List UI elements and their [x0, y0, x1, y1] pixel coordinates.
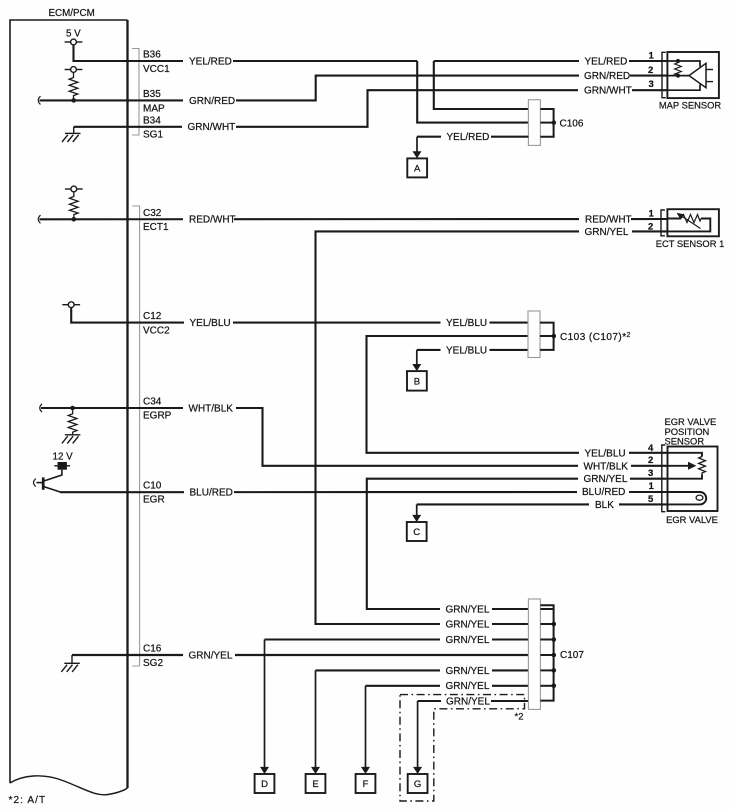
EGR pot wire pin3 — [668, 475, 703, 479]
MAP internal resistor — [675, 61, 682, 76]
svg-text:1: 1 — [649, 208, 655, 219]
svg-text:VCC1: VCC1 — [143, 64, 170, 75]
resistor (C32 pull-up) — [70, 192, 79, 219]
wire GRN/YEL (EGR pin3 down to C107 row A) — [367, 479, 668, 609]
wire GRN/YEL row G to arrow G — [418, 700, 529, 702]
svg-text:GRN/YEL: GRN/YEL — [446, 697, 490, 708]
label GRN/WHT near ECM — [182, 120, 236, 133]
svg-text:GRN/WHT: GRN/WHT — [584, 86, 632, 97]
svg-text:EGR VALVE: EGR VALVE — [666, 514, 718, 525]
svg-text:GRN/YEL: GRN/YEL — [446, 635, 490, 646]
pull-up supply circle (B35) — [65, 67, 83, 73]
ECT sensor box — [667, 209, 719, 236]
label BLK — [589, 498, 619, 511]
arrow to G — [417, 701, 419, 767]
label GRN/YEL row F — [440, 679, 492, 692]
svg-text:WHT/BLK: WHT/BLK — [189, 404, 234, 415]
arrow to E — [315, 670, 317, 767]
svg-text:ECM/PCM: ECM/PCM — [49, 8, 95, 19]
label GRN/YEL near ECM — [183, 649, 235, 662]
resistor (B35 pull-up) — [69, 72, 78, 100]
ECM/PCM box — [10, 20, 128, 795]
wire GRN/RED (B35 to MAP pin2) — [128, 76, 668, 101]
ECT internal loop — [667, 219, 710, 232]
label YEL/BLU near C103 — [441, 316, 490, 329]
svg-text:ECT1: ECT1 — [143, 222, 169, 233]
svg-text:C32: C32 — [143, 208, 162, 219]
EGR pot wiper arrow pin2 — [668, 465, 690, 467]
svg-text:1: 1 — [649, 50, 655, 61]
svg-text:1: 1 — [649, 481, 655, 492]
box B — [407, 371, 427, 391]
dash-dot A/T variant outline — [400, 695, 525, 801]
svg-text:SG2: SG2 — [143, 658, 163, 669]
svg-text:BLU/RED: BLU/RED — [190, 488, 233, 499]
svg-text:GRN/WHT: GRN/WHT — [188, 122, 236, 133]
label YEL/RED branch — [441, 130, 491, 143]
svg-text:GRN/YEL: GRN/YEL — [446, 666, 490, 677]
C107 junction dots — [552, 622, 557, 627]
label RED/WHT near ECM — [183, 213, 234, 226]
label GRN/YEL row E — [440, 664, 492, 677]
svg-text:2: 2 — [648, 222, 653, 233]
box C — [407, 522, 427, 541]
svg-text:VCC2: VCC2 — [143, 325, 170, 336]
svg-text:WHT/BLK: WHT/BLK — [584, 461, 629, 472]
svg-text:YEL/RED: YEL/RED — [447, 132, 490, 143]
arrow to C — [416, 504, 418, 515]
junction dot C34 — [70, 406, 75, 411]
pull-up supply circle (C32) — [65, 186, 83, 192]
svg-text:BLK: BLK — [595, 500, 614, 511]
svg-text:5: 5 — [648, 494, 654, 505]
arrow to F — [365, 686, 367, 768]
label GRN/YEL near EGR — [578, 472, 630, 485]
ground SG1 — [62, 127, 81, 142]
wire YEL/RED row1 sensor side — [434, 60, 668, 62]
label BLU/RED near ECM — [184, 486, 234, 499]
wire B36 (YEL/RED) from 5V to pin — [74, 45, 128, 61]
svg-text:GRN/RED: GRN/RED — [189, 96, 235, 107]
connector C103 terminal bracket — [540, 323, 554, 350]
connector C107 terminal bracket — [540, 605, 553, 700]
transistor Q (EGR driver) — [37, 470, 62, 493]
svg-text:YEL/BLU: YEL/BLU — [190, 318, 231, 329]
svg-text:C103 (C107)*2: C103 (C107)*2 — [560, 332, 631, 343]
label BLU/RED near EGR — [577, 485, 629, 498]
svg-text:5 V: 5 V — [66, 29, 81, 40]
svg-text:GRN/YEL: GRN/YEL — [189, 650, 233, 661]
svg-text:GRN/YEL: GRN/YEL — [585, 227, 629, 238]
arrow to B — [416, 350, 418, 365]
ECT connector bracket — [661, 210, 665, 236]
svg-text:YEL/BLU: YEL/BLU — [446, 318, 487, 329]
wire GRN/YEL row C to arrow D — [265, 638, 529, 640]
box A — [407, 158, 427, 177]
label GRN/YEL near ECT — [579, 225, 632, 238]
wire GRN/WHT (B34 to MAP pin3) — [128, 90, 668, 127]
svg-text:C12: C12 — [143, 311, 162, 322]
label GRN/YEL row G — [441, 696, 491, 707]
connector C107 housing — [528, 599, 540, 709]
wire continuation squiggle C32 — [38, 215, 40, 223]
wire vertical to C106 middle — [417, 61, 528, 123]
svg-text:MAP: MAP — [143, 103, 165, 114]
MAP junction dots — [676, 59, 680, 63]
svg-text:ECT SENSOR 1: ECT SENSOR 1 — [656, 238, 725, 249]
svg-text:SG1: SG1 — [143, 130, 163, 141]
svg-text:B36: B36 — [143, 50, 161, 61]
wire C34 (WHT/BLK) to EGR pin2 — [41, 408, 668, 466]
label GRN/RED near MAP — [579, 69, 630, 82]
svg-text:*2: A/T: *2: A/T — [9, 795, 47, 806]
box F — [356, 774, 376, 793]
12V supply square — [58, 462, 67, 470]
MAP buffer amp triangle — [689, 63, 706, 87]
label GRN/YEL row C — [440, 633, 492, 646]
resistor (C34 pull-down) — [68, 410, 77, 435]
svg-text:C106: C106 — [560, 118, 584, 129]
pin bracket group B36/B35/B34 — [132, 49, 139, 136]
MAP internal wire pin3 — [667, 84, 700, 90]
svg-text:A: A — [414, 164, 421, 175]
svg-text:C10: C10 — [143, 480, 162, 491]
svg-text:G: G — [414, 779, 421, 790]
svg-text:MAP SENSOR: MAP SENSOR — [659, 100, 722, 111]
junction dot C32 — [72, 217, 77, 222]
svg-text:RED/WHT: RED/WHT — [585, 214, 632, 225]
svg-text:SENSOR: SENSOR — [665, 435, 705, 446]
svg-text:2: 2 — [648, 65, 653, 76]
connector C106 housing — [528, 100, 540, 146]
wire C103 middle (to EGR pin4 via vertical) — [367, 336, 668, 453]
svg-text:C16: C16 — [143, 644, 162, 655]
wire YEL/RED row1 ECM side — [128, 60, 418, 62]
svg-text:RED/WHT: RED/WHT — [189, 215, 236, 226]
svg-text:GRN/YEL: GRN/YEL — [584, 474, 628, 485]
svg-text:B35: B35 — [143, 89, 161, 100]
wire continuation squiggle B35 — [38, 96, 40, 104]
C103 junction dot — [552, 334, 557, 339]
arrow to D — [264, 640, 266, 768]
svg-text:C34: C34 — [143, 396, 162, 407]
svg-text:EGRP: EGRP — [143, 411, 172, 422]
label WHT/BLK near EGR — [578, 460, 631, 473]
MAP internal wire pin2 — [667, 75, 689, 77]
MAP connector bracket — [662, 52, 666, 97]
EGR valve box — [668, 447, 718, 512]
svg-text:2: 2 — [648, 455, 653, 466]
wire GRN/YEL row F to arrow F — [366, 685, 529, 687]
wire continuation squiggle transistor base — [34, 479, 36, 487]
MAP internal wire pin1 — [667, 61, 700, 67]
svg-text:YEL/BLU: YEL/BLU — [446, 345, 487, 356]
label YEL/BLU near ECM — [184, 316, 233, 329]
wire GRN/YEL row E to arrow E — [316, 669, 529, 671]
svg-text:GRN/YEL: GRN/YEL — [446, 681, 490, 692]
junction dot B35 — [71, 98, 76, 103]
label YEL/BLU branch — [441, 344, 490, 357]
EGR solenoid coil — [668, 492, 707, 504]
label RED/WHT near ECT — [579, 213, 631, 226]
box E — [306, 774, 326, 793]
ground below C34 resistor — [62, 435, 81, 444]
wire vertical to C106 top — [434, 61, 529, 109]
svg-text:C107: C107 — [560, 650, 584, 661]
ground SG2 — [61, 655, 80, 672]
svg-text:GRN/RED: GRN/RED — [584, 71, 630, 82]
wire YEL/BLU branch to B — [417, 349, 529, 351]
svg-text:B34: B34 — [143, 115, 161, 126]
svg-text:B: B — [414, 377, 420, 388]
svg-text:3: 3 — [648, 468, 653, 479]
wire YEL/RED branch to A — [417, 136, 528, 138]
EGR pot resistor — [699, 457, 706, 475]
svg-text:YEL/BLU: YEL/BLU — [585, 448, 626, 459]
wire BLK (EGR pin5) — [417, 503, 668, 505]
label YEL/RED near MAP — [579, 55, 629, 68]
svg-text:BLU/RED: BLU/RED — [582, 487, 625, 498]
label GRN/WHT near MAP — [578, 84, 632, 97]
arrow to A — [416, 137, 418, 152]
label YEL/BLU near EGR — [579, 447, 629, 460]
svg-text:3: 3 — [649, 79, 654, 90]
ECT thermistor arrow — [680, 215, 701, 229]
svg-text:YEL/RED: YEL/RED — [585, 56, 628, 67]
svg-text:YEL/RED: YEL/RED — [189, 56, 232, 67]
connector C106 terminal bracket — [540, 109, 553, 137]
svg-text:*2: *2 — [515, 712, 524, 723]
svg-text:D: D — [261, 779, 268, 790]
MAP output stubs — [706, 69, 713, 71]
wire C16 (GRN/YEL) to C107 row D — [72, 654, 528, 656]
svg-text:EGR: EGR — [143, 495, 165, 506]
box D — [255, 774, 275, 793]
label YEL/RED near ECM — [183, 55, 233, 68]
svg-text:4: 4 — [648, 443, 654, 454]
connector C103 housing — [528, 311, 540, 358]
svg-text:C: C — [413, 527, 420, 538]
svg-text:12 V: 12 V — [53, 452, 74, 463]
wire continuation squiggle C34 — [40, 404, 42, 412]
wire C10 (BLU/RED) to EGR pin1 — [60, 491, 668, 493]
5V supply symbol — [65, 39, 83, 45]
supply circle (C12) — [62, 302, 80, 308]
EGR pot wire pin4 — [668, 453, 703, 457]
EGR connector bracket — [662, 445, 666, 512]
wire GRN/YEL (ECT pin2 down to C107 row B) — [316, 231, 668, 624]
svg-text:E: E — [312, 779, 318, 790]
label WHT/BLK near ECM — [183, 402, 236, 415]
pin bracket group C32..C16 — [132, 206, 139, 666]
MAP sensor box — [667, 52, 719, 98]
wire B35 (GRN/RED) — [40, 99, 128, 101]
label GRN/YEL row B — [440, 618, 492, 631]
svg-text:F: F — [363, 779, 369, 790]
label GRN/YEL row A — [440, 603, 492, 616]
C106 junction dot — [552, 120, 557, 125]
wire C12 (YEL/BLU) — [71, 308, 528, 323]
label GRN/RED near ECM — [183, 94, 236, 107]
ECT thermistor zigzag — [681, 215, 701, 223]
svg-text:GRN/YEL: GRN/YEL — [446, 619, 490, 630]
svg-text:GRN/YEL: GRN/YEL — [446, 604, 490, 615]
box G — [408, 774, 428, 793]
wire C32 (RED/WHT) — [40, 218, 668, 220]
C107 stubs — [540, 609, 553, 686]
wire B34 (GRN/WHT) — [74, 126, 128, 128]
